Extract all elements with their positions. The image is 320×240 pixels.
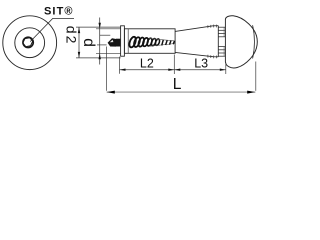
L2 arrow left [120, 69, 126, 71]
extension line L2/L3 shared (cone start) [173, 55, 175, 75]
svg-text:SIT®: SIT® [44, 5, 74, 17]
svg-text:d2: d2 [63, 26, 79, 46]
middle circle (front view collar) [15, 28, 45, 58]
outer circle (front view head outline) [3, 16, 57, 70]
screw tip wedge [108, 38, 116, 46]
d extension line bottom [96, 52, 124, 54]
thread tail dashes [162, 40, 175, 46]
L3 arrow right [220, 69, 226, 71]
expansion cone bottom edge [175, 52, 218, 56]
screw thread coil [128, 36, 160, 48]
screw shaft through flange [116, 39, 121, 47]
collar end vertical [217, 26, 219, 57]
serration inner vertical bottom [223, 47, 225, 57]
left flange ring [121, 26, 125, 56]
d arrow down (above top ext) [99, 23, 101, 29]
L3 dimension line [174, 69, 226, 71]
expansion cone top edge [175, 26, 218, 32]
collar rib ticks bottom [208, 55, 217, 59]
d2 arrow down [78, 52, 80, 58]
d2 dimension line [78, 27, 80, 58]
svg-text:L: L [173, 76, 182, 93]
head dome outline [225, 16, 257, 68]
d extension line top [96, 28, 124, 30]
L2 arrow right [168, 69, 174, 71]
screw tip upper thread line [100, 34, 111, 36]
socket hexagon [23, 38, 33, 47]
inner socket ring [23, 37, 33, 47]
collar rib ticks top [208, 25, 217, 29]
extension line L2 left (flange) [119, 57, 121, 74]
plug body rectangle [124, 29, 175, 54]
extension line L left (screw tip) [106, 47, 108, 91]
svg-text:L2: L2 [140, 57, 154, 71]
serration lines bottom group [218, 47, 225, 57]
head inner arc [253, 25, 255, 58]
svg-text:L3: L3 [194, 56, 208, 70]
L arrow right [247, 91, 255, 94]
inner vertical at body left [127, 29, 129, 54]
extension line L3 right (head face) [225, 63, 227, 75]
d2 extension line bottom [76, 57, 121, 59]
d2 extension line top [76, 26, 121, 28]
d dimension line [99, 18, 101, 65]
thread tail top edge [149, 38, 175, 41]
L dimension line [107, 91, 256, 93]
leader line to label [30, 18, 74, 41]
serration inner vertical top [223, 27, 225, 37]
d2 arrow up [78, 27, 80, 33]
head flat face [224, 19, 226, 61]
svg-text:d: d [80, 38, 97, 47]
thread tail bottom edge [149, 44, 175, 47]
L arrow left [107, 91, 115, 94]
screw tip lower thread line [97, 44, 107, 46]
d arrow up (below bottom ext) [99, 53, 101, 59]
L2 dimension line [120, 69, 175, 71]
L3 arrow left [174, 69, 180, 71]
extension line L right (dome end) [255, 62, 257, 91]
serration lines top group [218, 27, 225, 37]
screw tip notch highlight [110, 40, 114, 43]
